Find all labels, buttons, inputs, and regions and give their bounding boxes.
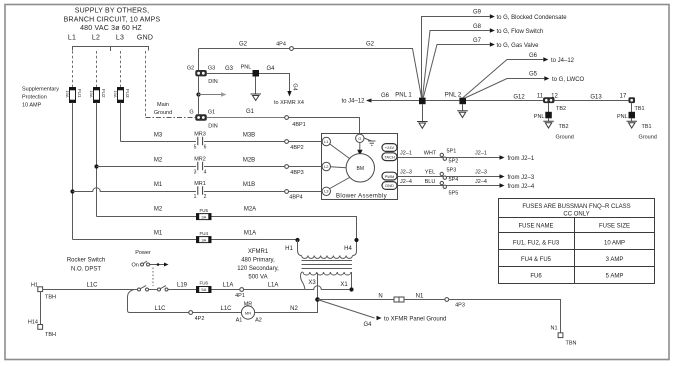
blower assembly box U1 <box>322 134 398 200</box>
svg-text:YEL: YEL <box>425 170 435 176</box>
svg-text:L3: L3 <box>324 189 329 194</box>
svg-text:480 VAC 3ø 60 HZ: 480 VAC 3ø 60 HZ <box>80 25 142 32</box>
wire M2 lower <box>97 216 197 218</box>
ground PNL 1 <box>417 104 428 128</box>
svg-text:FUSES ARE BUSSMAN FNQ–R CLASS: FUSES ARE BUSSMAN FNQ–R CLASS <box>522 204 630 210</box>
svg-text:MR3: MR3 <box>194 132 206 138</box>
svg-text:3A: 3A <box>201 237 206 242</box>
svg-text:5P5: 5P5 <box>449 191 459 197</box>
svg-text:L3: L3 <box>116 35 124 42</box>
svg-text:PWM: PWM <box>385 174 395 179</box>
ground at blower G <box>364 138 376 145</box>
fuse FU3 <box>113 87 130 102</box>
rocker switch pole 1 <box>138 286 149 291</box>
svg-text:CC ONLY: CC ONLY <box>563 212 589 218</box>
svg-text:TB1: TB1 <box>642 124 652 130</box>
wire G5 to LWCO <box>465 72 585 99</box>
svg-text:PNL: PNL <box>617 114 628 120</box>
svg-text:J2–3: J2–3 <box>475 170 487 176</box>
svg-text:G3: G3 <box>225 66 234 72</box>
svg-text:G7: G7 <box>473 38 482 44</box>
connector 4P4 <box>276 42 293 51</box>
rocker switch note <box>67 258 105 273</box>
svg-text:Ground: Ground <box>154 110 172 116</box>
connector 4BP2 <box>285 140 304 151</box>
svg-text:PNL 1: PNL 1 <box>395 93 412 99</box>
fuse FU2 <box>89 87 106 102</box>
svg-text:Blower Assembly: Blower Assembly <box>336 194 387 200</box>
svg-text:10A: 10A <box>113 90 118 97</box>
wire M2 <box>97 166 197 168</box>
connector 4P3 <box>445 298 465 309</box>
wire L1 to motor <box>330 144 350 159</box>
svg-text:G4: G4 <box>266 66 275 72</box>
svg-text:FU1, FU2, & FU3: FU1, FU2, & FU3 <box>513 241 560 247</box>
svg-text:TB2: TB2 <box>559 124 569 130</box>
fuse table <box>499 199 655 284</box>
note main ground <box>154 102 172 116</box>
svg-text:G: G <box>189 110 193 116</box>
svg-text:GND: GND <box>137 35 153 42</box>
svg-text:5P4: 5P4 <box>449 177 459 183</box>
svg-text:Main: Main <box>157 102 169 108</box>
svg-text:G4: G4 <box>363 322 372 328</box>
svg-text:4P1: 4P1 <box>235 293 245 299</box>
blower terminal L3 <box>322 187 330 195</box>
svg-text:G1: G1 <box>208 110 215 116</box>
svg-text:from J2–1: from J2–1 <box>508 156 535 162</box>
svg-text:X1: X1 <box>340 282 348 288</box>
svg-text:to G, LWCO: to G, LWCO <box>552 77 585 83</box>
power on actuator <box>132 250 169 269</box>
svg-text:FU6: FU6 <box>530 274 542 280</box>
svg-text:4BP1: 4BP1 <box>292 122 305 128</box>
terminal H14 TBH <box>28 320 56 339</box>
motor BM <box>346 154 374 182</box>
svg-text:to G, Gas Valve: to G, Gas Valve <box>497 43 540 49</box>
fuse FU4 <box>196 231 211 243</box>
svg-text:to G, Blocked Condensate: to G, Blocked Condensate <box>497 15 568 21</box>
wire G1 to blower G <box>289 118 360 136</box>
wire M3B <box>204 141 285 143</box>
wire main ground dash-dot to G terminal <box>146 117 196 119</box>
wire L2 to motor <box>331 167 347 168</box>
wire G2 <box>199 48 290 50</box>
svg-text:G3: G3 <box>208 66 215 72</box>
terminal block TB1 17 <box>620 94 645 113</box>
blower terminal L1 <box>322 137 330 145</box>
svg-text:M3: M3 <box>154 133 163 139</box>
svg-text:BLU: BLU <box>425 179 436 185</box>
wire M1A <box>212 240 298 251</box>
svg-text:H1: H1 <box>31 283 38 289</box>
wire L3 vertical <box>120 103 122 142</box>
svg-text:10 AMP: 10 AMP <box>604 241 625 247</box>
svg-text:M3B: M3B <box>243 133 255 139</box>
wire G2 to PNL 1 <box>293 49 421 98</box>
wire M2B <box>204 166 285 168</box>
svg-text:On: On <box>132 263 139 269</box>
svg-text:WHT: WHT <box>424 151 437 157</box>
node junction L1/M1 <box>70 189 74 193</box>
svg-text:TBH: TBH <box>45 332 56 338</box>
svg-text:1: 1 <box>194 194 197 200</box>
svg-text:DIN: DIN <box>208 124 218 130</box>
svg-text:TB1: TB1 <box>635 106 645 112</box>
svg-text:G4: G4 <box>292 83 298 90</box>
svg-text:L1A: L1A <box>223 283 234 289</box>
svg-text:5P3: 5P3 <box>447 168 457 174</box>
panel bond PNL <box>241 65 259 77</box>
wire secondary center tap <box>317 273 319 300</box>
wire J2-3 YEL <box>398 170 500 177</box>
wire GND drop (dashed) <box>145 51 147 118</box>
relay coil MR <box>236 302 262 324</box>
svg-text:FUSE SIZE: FUSE SIZE <box>599 224 630 230</box>
svg-text:Supplementary: Supplementary <box>22 87 59 93</box>
connector 4BP4 <box>285 190 303 201</box>
wire G4 to panel ground <box>318 300 447 329</box>
arrow to XFMR X4 <box>287 91 291 97</box>
svg-text:5: 5 <box>194 145 197 151</box>
supply note text <box>64 7 161 41</box>
rocker switch pole 2 <box>149 286 168 291</box>
svg-text:to XFMR Panel Ground: to XFMR Panel Ground <box>384 317 446 323</box>
svg-text:PNL 2: PNL 2 <box>445 93 462 99</box>
node junction L2/M2 <box>94 164 98 168</box>
wire N <box>318 299 395 301</box>
supply bracket <box>73 47 149 52</box>
svg-text:3A: 3A <box>201 214 206 219</box>
svg-text:MR1: MR1 <box>194 181 206 187</box>
ground TB2 <box>543 118 574 140</box>
arrow from J2-4 <box>500 183 535 190</box>
ground PNL <box>251 77 262 101</box>
wire M2A <box>212 217 357 252</box>
svg-text:J2–1: J2–1 <box>475 151 487 157</box>
note supplementary protection <box>22 87 59 109</box>
svg-text:from J2–4: from J2–4 <box>508 184 535 190</box>
connector 5P5 <box>440 181 458 196</box>
wire G8 <box>423 24 544 98</box>
wire G riser lower <box>198 77 200 115</box>
wire L2 vertical <box>96 103 98 217</box>
svg-text:3 AMP: 3 AMP <box>606 257 624 263</box>
wire L1 vertical <box>72 103 74 240</box>
ground PNL 2 <box>457 104 468 117</box>
svg-text:N2: N2 <box>290 306 298 312</box>
wire G2 riser <box>198 49 200 71</box>
connector 4BP1 <box>285 116 306 128</box>
svg-text:N: N <box>378 294 382 300</box>
svg-text:4BP2: 4BP2 <box>290 145 303 151</box>
terminal block G/G1 DIN <box>189 110 217 130</box>
arrow from J2-1 <box>500 155 535 162</box>
svg-text:G2: G2 <box>239 42 248 48</box>
fuse FU5 <box>196 208 211 220</box>
svg-text:Protection: Protection <box>22 95 47 101</box>
relay contact MR3 pins 5 6 <box>194 132 207 151</box>
inline link N <box>394 297 404 302</box>
svg-text:G12: G12 <box>513 95 525 101</box>
svg-text:BM: BM <box>357 166 365 172</box>
switch linkage dashed <box>152 268 154 287</box>
svg-text:10 AMP: 10 AMP <box>22 103 42 109</box>
transformer XFMR1 note <box>237 249 279 281</box>
svg-text:to J4–12: to J4–12 <box>341 99 365 105</box>
blower pin PWM <box>382 172 397 180</box>
wire PNL1 to PNL2 <box>426 100 460 102</box>
svg-text:G2: G2 <box>187 66 194 72</box>
svg-text:TACH: TACH <box>384 154 395 159</box>
svg-text:FU6: FU6 <box>200 281 209 286</box>
wire L2 drop (dashed) <box>96 51 98 88</box>
wire H1 to H14 <box>40 292 42 325</box>
wire N1 <box>404 299 445 301</box>
svg-text:L1C: L1C <box>220 306 232 312</box>
svg-text:G13: G13 <box>590 95 602 101</box>
connector 4P1 <box>235 288 245 299</box>
svg-text:to J4–12: to J4–12 <box>551 58 575 64</box>
blower pin +24V <box>382 144 397 152</box>
svg-text:N1: N1 <box>550 326 557 332</box>
svg-text:M2: M2 <box>154 158 163 164</box>
svg-text:2: 2 <box>204 194 207 200</box>
wire L1A <box>212 289 240 291</box>
blower terminal L2 <box>322 162 330 170</box>
svg-text:L1: L1 <box>324 139 329 144</box>
svg-text:Ground: Ground <box>639 135 657 141</box>
svg-text:J2–4: J2–4 <box>475 179 487 185</box>
node H1 lead dot <box>295 238 299 242</box>
transformer core <box>302 261 353 269</box>
wire M1 with hop over L2 <box>73 188 197 192</box>
wire L1A to X1 with hop over tap <box>244 286 350 290</box>
wire to blower L3 <box>289 191 323 193</box>
svg-text:4BP3: 4BP3 <box>290 170 303 176</box>
node H4 lead dot <box>354 238 358 242</box>
svg-text:H1: H1 <box>285 246 293 252</box>
svg-text:G2: G2 <box>366 42 375 48</box>
arrow from J2-3 <box>500 174 535 181</box>
connector 5P3 / 5P4 <box>440 168 458 183</box>
svg-text:+24V: +24V <box>385 145 395 150</box>
svg-text:TBN: TBN <box>566 341 577 347</box>
svg-text:G8: G8 <box>473 24 482 30</box>
svg-text:GND: GND <box>385 183 394 188</box>
svg-text:4P2: 4P2 <box>195 316 205 322</box>
svg-text:J2–1: J2–1 <box>400 151 412 157</box>
node X1 dot <box>349 287 353 291</box>
wire G4 <box>259 74 290 92</box>
svg-text:G6: G6 <box>529 53 538 59</box>
svg-text:M1B: M1B <box>243 182 255 188</box>
svg-text:Power: Power <box>135 250 151 256</box>
svg-text:FU1: FU1 <box>77 89 82 98</box>
wire G3 <box>207 73 253 75</box>
svg-text:10A: 10A <box>65 90 70 97</box>
svg-text:G1: G1 <box>246 109 255 115</box>
wire G1 <box>207 117 285 119</box>
svg-text:G: G <box>358 136 361 141</box>
svg-text:DIN: DIN <box>208 79 218 85</box>
connector 4P2 <box>189 311 205 322</box>
svg-text:J2–4: J2–4 <box>400 179 412 185</box>
svg-text:N.O. DPST: N.O. DPST <box>71 267 101 273</box>
svg-text:PNL: PNL <box>241 65 252 71</box>
svg-text:H14: H14 <box>28 320 38 326</box>
svg-text:4P3: 4P3 <box>455 303 465 309</box>
svg-text:MR: MR <box>244 302 253 308</box>
svg-text:TB2: TB2 <box>556 106 566 112</box>
wire L1 drop (dashed) <box>72 51 74 88</box>
wire J2-1 WHT <box>398 151 500 158</box>
node N junction <box>315 297 320 302</box>
svg-text:FU4 & FU5: FU4 & FU5 <box>521 257 552 263</box>
panel bond PNL at TB1 <box>617 103 635 120</box>
svg-text:N1: N1 <box>416 294 424 300</box>
fuse FU1 <box>65 87 82 102</box>
svg-text:FU3: FU3 <box>125 89 130 98</box>
wire L1C <box>43 289 138 291</box>
wire M3 <box>121 141 197 143</box>
svg-text:A2: A2 <box>255 318 262 324</box>
svg-text:FUSE NAME: FUSE NAME <box>518 224 553 230</box>
wire L19 <box>168 289 196 291</box>
terminal block TB2 11/12 <box>537 94 566 113</box>
svg-text:PNL: PNL <box>534 114 545 120</box>
relay contact MR1 pins 1 2 <box>194 181 207 200</box>
wire N1 to TBN <box>449 300 561 333</box>
svg-text:XFMR1: XFMR1 <box>248 249 269 255</box>
svg-text:SUPPLY BY OTHERS,: SUPPLY BY OTHERS, <box>75 7 150 14</box>
svg-text:500 VA: 500 VA <box>248 275 267 281</box>
panel bond PNL 2 <box>459 98 466 105</box>
svg-text:11: 11 <box>537 94 544 100</box>
svg-text:H4: H4 <box>344 246 352 252</box>
svg-text:X3: X3 <box>308 280 316 286</box>
svg-text:MR: MR <box>245 310 251 315</box>
svg-text:4P4: 4P4 <box>276 42 286 48</box>
wire M1B <box>204 191 285 193</box>
wire G9 <box>422 10 568 98</box>
fuse FU6 <box>196 281 211 293</box>
svg-text:FU5: FU5 <box>200 208 209 213</box>
svg-text:5 AMP: 5 AMP <box>606 274 624 280</box>
wire to J4-12 from PNL 1 <box>341 93 419 105</box>
svg-text:G9: G9 <box>473 10 482 16</box>
wire N2 <box>255 300 318 313</box>
svg-text:FU2: FU2 <box>101 89 106 98</box>
svg-text:4: 4 <box>204 170 207 176</box>
wire G12 <box>466 100 543 102</box>
wire to blower L1 <box>289 141 323 143</box>
svg-text:L1: L1 <box>68 35 76 42</box>
svg-text:TBH: TBH <box>45 295 56 301</box>
wire G13 <box>555 100 629 102</box>
svg-text:4BP4: 4BP4 <box>289 195 302 201</box>
svg-text:BRANCH CIRCUIT, 10 AMPS: BRANCH CIRCUIT, 10 AMPS <box>64 16 161 23</box>
blower terminal G <box>356 134 364 142</box>
svg-text:6: 6 <box>204 145 207 151</box>
transformer XFMR1 primary H1-H4 <box>285 240 356 258</box>
node G junction with arrow <box>196 92 226 97</box>
panel bond PNL 1 <box>419 98 426 105</box>
svg-text:L19: L19 <box>177 283 188 289</box>
terminal H1 TBH <box>31 283 56 301</box>
svg-text:M1: M1 <box>154 231 163 237</box>
connector 4BP3 <box>285 165 304 176</box>
svg-text:120 Secondary,: 120 Secondary, <box>237 266 279 272</box>
wire J2-4 BLU <box>398 179 500 186</box>
svg-text:L2: L2 <box>324 164 329 169</box>
svg-text:J2–3: J2–3 <box>400 170 412 176</box>
svg-text:5P2: 5P2 <box>449 159 459 165</box>
wire M1 lower <box>73 239 197 241</box>
svg-text:Ground: Ground <box>556 135 574 141</box>
wire G7 <box>423 38 539 98</box>
wire to blower L2 <box>289 166 323 168</box>
svg-text:L1C: L1C <box>86 283 98 289</box>
svg-text:from J2–3: from J2–3 <box>508 175 535 181</box>
wire L3 drop (dashed) <box>120 51 122 88</box>
blower pin TACH <box>382 153 397 161</box>
ground TB1 <box>627 118 657 140</box>
svg-text:3: 3 <box>194 170 197 176</box>
svg-text:5A: 5A <box>201 287 206 292</box>
svg-text:FU4: FU4 <box>200 231 209 236</box>
svg-text:M1A: M1A <box>244 231 256 237</box>
svg-text:A1: A1 <box>236 318 243 324</box>
connector 5P1 / 5P2 <box>440 149 458 165</box>
svg-text:M1: M1 <box>154 182 163 188</box>
svg-text:10A: 10A <box>89 90 94 97</box>
svg-text:G6: G6 <box>381 93 390 99</box>
svg-text:L1A: L1A <box>268 283 279 289</box>
svg-text:MR2: MR2 <box>194 157 206 163</box>
terminal block G2/G3 DIN <box>187 66 218 86</box>
svg-text:to XFMR X4: to XFMR X4 <box>274 100 304 106</box>
svg-text:to G, Flow Switch: to G, Flow Switch <box>497 29 544 35</box>
svg-text:L1C: L1C <box>154 306 166 312</box>
transformer XFMR1 secondary X3-X1 <box>301 272 352 289</box>
wire L3 to motor <box>330 178 350 189</box>
svg-text:17: 17 <box>620 94 627 100</box>
svg-text:Rocker Switch: Rocker Switch <box>67 258 105 264</box>
wire G6 to J4-12 <box>463 53 575 98</box>
svg-text:G5: G5 <box>529 72 538 78</box>
svg-text:L2: L2 <box>92 35 100 42</box>
relay contact MR2 pins 3 4 <box>194 157 207 176</box>
wire L1C to coil <box>193 312 242 314</box>
blower pin GND <box>382 182 397 190</box>
svg-text:480 Primary,: 480 Primary, <box>241 258 275 264</box>
svg-text:M2A: M2A <box>244 207 256 213</box>
wire switch branch to L1C lower <box>128 290 189 313</box>
svg-text:M2: M2 <box>154 207 163 213</box>
svg-text:5P1: 5P1 <box>447 149 457 155</box>
terminal N1 TBN <box>550 326 576 347</box>
wire G to motor with arrow <box>357 143 362 156</box>
panel bond PNL at TB2 <box>534 103 552 120</box>
svg-text:M2B: M2B <box>243 158 255 164</box>
